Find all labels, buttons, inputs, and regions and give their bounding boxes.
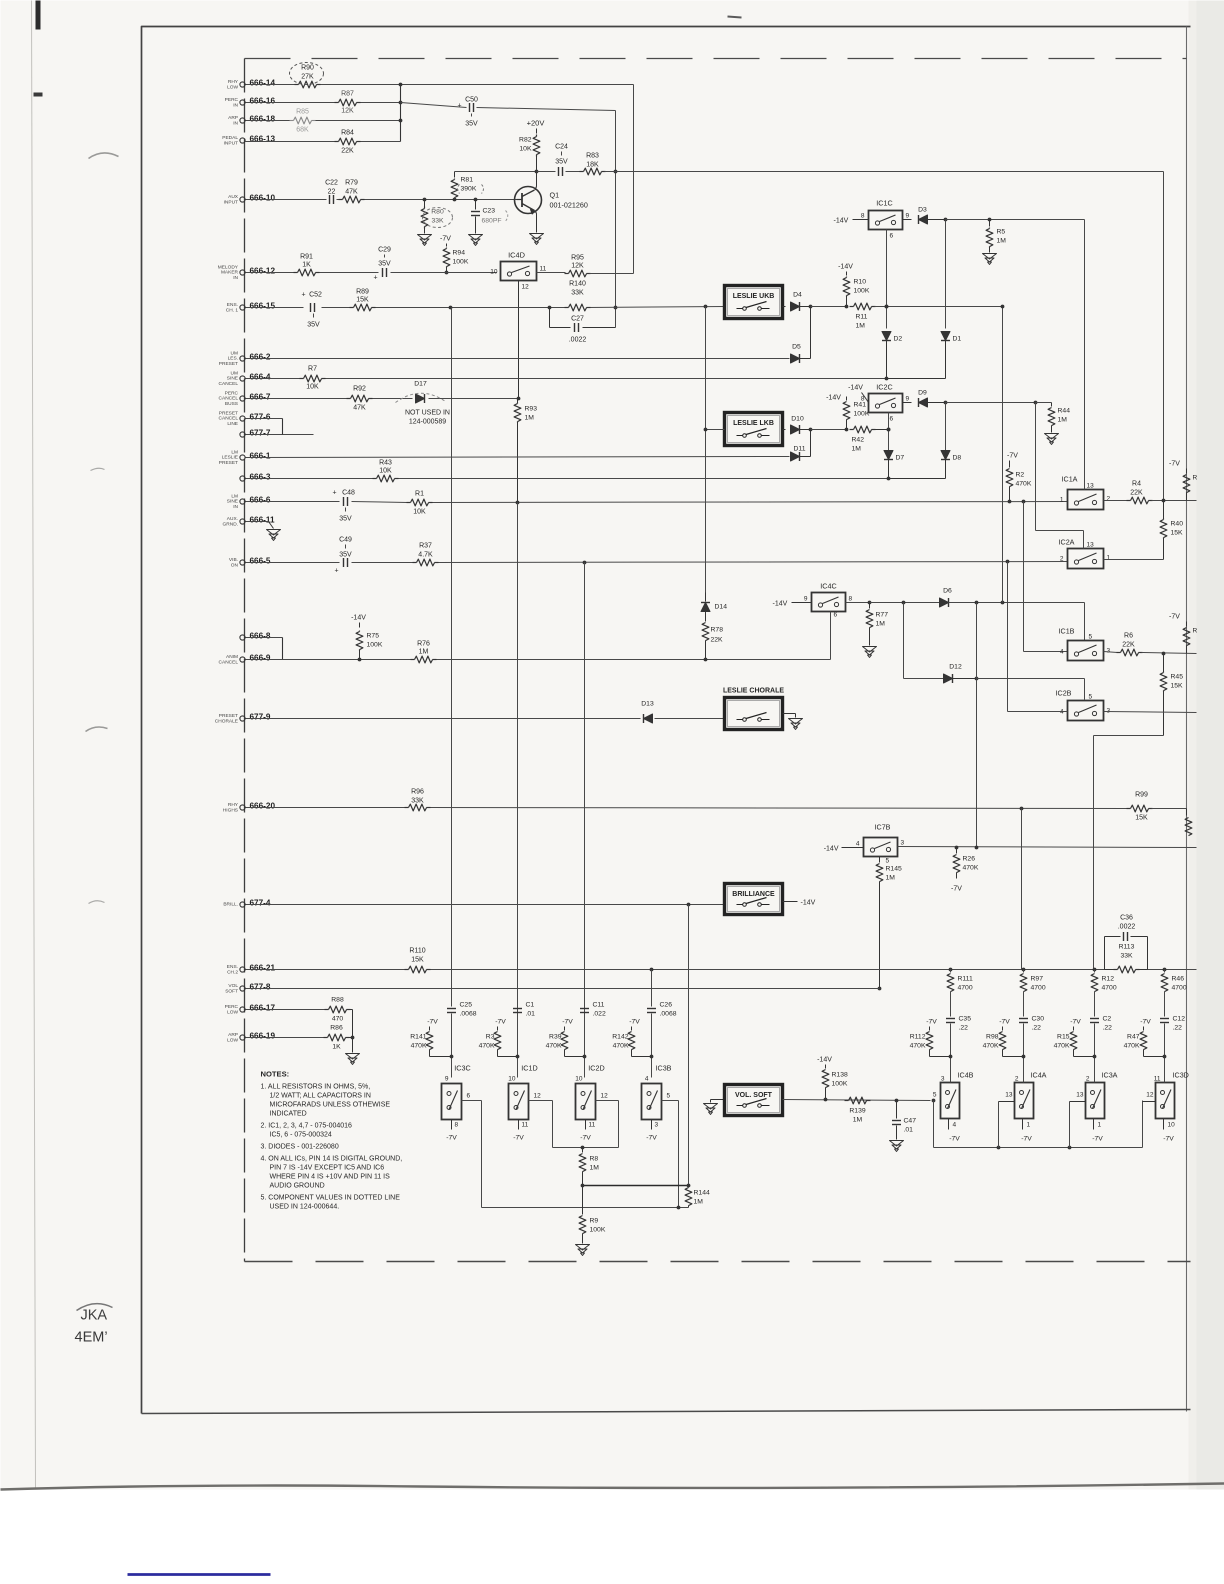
svg-text:VOL. SOFT: VOL. SOFT <box>735 1092 773 1099</box>
ground right of chorale box <box>783 713 796 715</box>
svg-text:C30: C30 <box>1032 1016 1045 1023</box>
ground under C23 <box>469 235 483 241</box>
svg-text:-7V: -7V <box>580 1135 591 1142</box>
svg-text:.0068: .0068 <box>460 1011 477 1018</box>
wire vol soft to IC4B <box>783 1100 931 1101</box>
svg-text:R145: R145 <box>886 866 902 873</box>
svg-text:R82: R82 <box>519 137 532 144</box>
svg-text:3: 3 <box>1107 708 1111 715</box>
svg-text:R4: R4 <box>1132 481 1141 488</box>
svg-text:-7V: -7V <box>646 1135 657 1142</box>
diode D14 vertical <box>705 593 707 602</box>
svg-text:C26: C26 <box>660 1002 673 1009</box>
connector 666-7 <box>240 396 245 401</box>
svg-text:33K: 33K <box>411 798 424 805</box>
svg-text:9: 9 <box>804 596 808 603</box>
resistor R7 <box>304 375 322 382</box>
svg-text:27K: 27K <box>301 74 314 81</box>
svg-text:R76: R76 <box>417 641 430 648</box>
resistor R79 <box>343 196 361 203</box>
svg-text:ENS.: ENS. <box>227 964 238 970</box>
ground under R77 <box>863 647 877 653</box>
svg-text:R43: R43 <box>379 460 392 467</box>
svg-text:C24: C24 <box>555 144 568 151</box>
D4 D5 join vertical <box>800 306 811 308</box>
svg-text:R86: R86 <box>330 1025 343 1032</box>
svg-text:D5: D5 <box>792 344 801 351</box>
svg-text:AUX.: AUX. <box>227 516 238 522</box>
svg-text:R94: R94 <box>453 250 466 257</box>
svg-text:666-19: 666-19 <box>250 1032 276 1041</box>
svg-text:CHORALE: CHORALE <box>215 718 238 724</box>
resistor R93 <box>514 404 521 422</box>
svg-text:100K: 100K <box>854 411 870 418</box>
connector 677-6 <box>240 416 245 421</box>
svg-text:-7V: -7V <box>951 886 962 893</box>
svg-text:IC3D: IC3D <box>1173 1071 1189 1080</box>
svg-text:R5: R5 <box>997 229 1006 236</box>
resistor R138 <box>825 1065 827 1069</box>
svg-text:-14V: -14V <box>834 218 849 225</box>
svg-text:2: 2 <box>1086 1076 1090 1083</box>
svg-text:11: 11 <box>1154 1076 1161 1083</box>
diode D12 <box>944 674 953 683</box>
vertical from 666-5 row to IC2B pin4 <box>1006 560 1010 564</box>
svg-text:2. IC1, 2, 3, 4,7 - 075-00401: 2. IC1, 2, 3, 4,7 - 075-004016 <box>261 1123 353 1130</box>
D1 D2 bottoms tie to 666-4 row <box>887 378 946 380</box>
ground under R9 <box>576 1245 590 1251</box>
svg-text:3: 3 <box>1107 648 1111 655</box>
svg-text:15K: 15K <box>356 297 369 304</box>
svg-text:4: 4 <box>1060 649 1064 656</box>
svg-text:3: 3 <box>655 1122 659 1129</box>
svg-text:LOW: LOW <box>227 1037 238 1043</box>
svg-text:677-8: 677-8 <box>250 983 271 992</box>
capacitor C22 <box>329 195 331 204</box>
svg-text:C23: C23 <box>483 208 496 215</box>
svg-text:IC4C: IC4C <box>820 582 836 591</box>
svg-text:12K: 12K <box>571 263 584 270</box>
resistor R97 <box>1022 968 1026 972</box>
svg-text:R: R <box>1193 475 1198 482</box>
svg-text:15K: 15K <box>411 957 424 964</box>
svg-text:-7V: -7V <box>1092 1136 1103 1143</box>
svg-text:-14V: -14V <box>838 264 853 271</box>
svg-text:R84: R84 <box>341 130 354 137</box>
resistor R6 <box>1121 649 1139 656</box>
junction R96 row down to ens ch2 row <box>1021 809 1023 970</box>
svg-text:1M: 1M <box>590 1165 600 1172</box>
svg-text:.0022: .0022 <box>569 337 587 344</box>
svg-text:11: 11 <box>589 1122 596 1129</box>
svg-text:4700: 4700 <box>1172 985 1187 992</box>
svg-text:5: 5 <box>886 858 890 865</box>
svg-text:4700: 4700 <box>1102 985 1117 992</box>
ground under C47 <box>890 1141 904 1147</box>
svg-text:C25: C25 <box>460 1002 473 1009</box>
vertical from R11 row down to D6 row <box>1002 307 1004 603</box>
svg-text:VOL: VOL <box>228 983 238 989</box>
wire 677-9 row chorale <box>246 718 641 720</box>
vertical D9 junction to D8 <box>945 403 947 474</box>
svg-text:470K: 470K <box>1054 1043 1070 1050</box>
svg-text:C1: C1 <box>526 1002 535 1009</box>
svg-text:R141: R141 <box>410 1034 426 1041</box>
svg-text:R42: R42 <box>852 437 865 444</box>
svg-text:IC1D: IC1D <box>521 1064 537 1073</box>
svg-text:LM: LM <box>231 450 238 456</box>
svg-text:IC7B: IC7B <box>875 823 891 832</box>
svg-text:BRILL.: BRILL. <box>223 902 238 908</box>
svg-text:UM: UM <box>231 351 238 357</box>
svg-text:33K: 33K <box>431 218 444 225</box>
rail under bottom ICs <box>933 1101 935 1148</box>
svg-text:10K: 10K <box>519 146 532 153</box>
IC2C pin6 vertical <box>888 413 890 474</box>
svg-text:35V: 35V <box>465 121 478 128</box>
wire 666-1 row to D11 <box>246 457 790 458</box>
svg-text:IC1B: IC1B <box>1059 627 1075 636</box>
svg-text:11: 11 <box>522 1122 529 1129</box>
svg-text:C47: C47 <box>904 1118 917 1125</box>
svg-text:R26: R26 <box>963 856 976 863</box>
diode D7 <box>884 451 893 460</box>
svg-text:2: 2 <box>1107 496 1111 503</box>
svg-text:13: 13 <box>1005 1092 1013 1099</box>
svg-text:IC2D: IC2D <box>588 1064 604 1073</box>
svg-text:HIGHS: HIGHS <box>223 807 238 813</box>
svg-text:-7V: -7V <box>949 1136 960 1143</box>
svg-text:IC3C: IC3C <box>454 1064 470 1073</box>
svg-text:IC1C: IC1C <box>876 199 892 208</box>
svg-text:PIN 7 IS -14V EXCEPT IC5 AND I: PIN 7 IS -14V EXCEPT IC5 AND IC6 <box>270 1165 385 1172</box>
wire 666-13 row <box>246 141 338 143</box>
connector 677-7 <box>240 432 245 437</box>
connector 666-12 <box>240 270 245 275</box>
wire 666-7 row <box>246 398 348 400</box>
svg-text:-7V: -7V <box>446 1135 457 1142</box>
svg-text:LM: LM <box>231 494 238 500</box>
svg-text:-14V: -14V <box>824 846 839 853</box>
diode D11 <box>791 452 800 461</box>
svg-text:-7V: -7V <box>1169 614 1180 621</box>
svg-text:C49: C49 <box>339 537 352 544</box>
wire 666-14 row <box>246 84 296 86</box>
svg-text:470K: 470K <box>546 1043 562 1050</box>
svg-text:-7V: -7V <box>427 1019 438 1026</box>
capacitor C29 <box>382 268 384 277</box>
wire D9 to R44 <box>946 402 1036 404</box>
junction x705 on 666-9 row <box>704 658 708 662</box>
svg-text:D4: D4 <box>793 292 802 299</box>
outer border frame <box>142 27 1191 1414</box>
svg-text:R139: R139 <box>849 1108 865 1115</box>
resistor R45 <box>1160 673 1167 691</box>
wire 666-12 row <box>246 272 295 274</box>
wire 666-14 corner down x633 <box>633 85 635 274</box>
svg-text:C27: C27 <box>571 316 584 323</box>
scan dirt tick top <box>728 17 742 18</box>
svg-text:C48: C48 <box>342 490 355 497</box>
IC4C pin8 node <box>846 602 870 604</box>
connector 666-3 <box>240 476 245 481</box>
wire 666-19 row <box>246 1037 325 1039</box>
svg-text:1M: 1M <box>1058 417 1068 424</box>
svg-text:JKA: JKA <box>81 1308 108 1324</box>
binder mark 3 <box>86 727 108 731</box>
connector 666-13 <box>240 138 245 143</box>
svg-text:666-21: 666-21 <box>250 964 276 973</box>
svg-text:10: 10 <box>1168 1122 1176 1129</box>
vertical bus x705 ens ch1 <box>704 305 708 309</box>
R45 bottom wire left <box>1094 735 1164 737</box>
vertical from D12 row to IC7B row <box>976 679 978 848</box>
wire 666-15 row <box>246 307 304 309</box>
svg-text:ANIM: ANIM <box>226 654 238 660</box>
wire D9 net into IC2A pin13 jog <box>1035 403 1037 531</box>
svg-text:1K: 1K <box>302 262 311 269</box>
svg-text:22K: 22K <box>1122 642 1135 649</box>
svg-text:.0068: .0068 <box>660 1011 677 1018</box>
resistor R5 <box>988 218 992 222</box>
svg-text:2: 2 <box>1015 1076 1019 1083</box>
wire 677-8 vol soft row <box>246 988 880 990</box>
leg C1 <box>513 1008 522 1010</box>
svg-text:D12: D12 <box>949 664 962 671</box>
svg-text:R80: R80 <box>431 209 444 216</box>
resistor R86 <box>328 1034 346 1041</box>
svg-text:R87: R87 <box>341 91 354 98</box>
wire 666-10 row <box>246 199 327 201</box>
capacitor C35 <box>946 1018 955 1020</box>
collector node row y171 <box>455 171 537 173</box>
svg-text:R83: R83 <box>586 153 599 160</box>
svg-text:22K: 22K <box>711 637 724 644</box>
connector 666-18 <box>240 118 245 123</box>
diode D17 <box>416 394 425 403</box>
connector 666-1 <box>240 455 245 460</box>
svg-text:677-9: 677-9 <box>250 713 271 722</box>
IC4D pin 12 <box>518 281 520 398</box>
IC1B pin3 to R6 <box>1104 652 1118 653</box>
resistor R88 <box>329 1006 347 1013</box>
IC1C pin6 vertical <box>886 230 888 329</box>
svg-text:666-12: 666-12 <box>250 267 276 276</box>
svg-text:3: 3 <box>941 1076 945 1083</box>
svg-text:CANCEL: CANCEL <box>219 396 239 402</box>
svg-text:10K: 10K <box>306 384 319 391</box>
svg-text:12: 12 <box>522 284 530 291</box>
capacitor C49 <box>343 558 345 567</box>
svg-text:-7V: -7V <box>1021 1136 1032 1143</box>
transistor Q1 <box>515 187 542 214</box>
svg-text:-7V: -7V <box>513 1135 524 1142</box>
svg-text:4: 4 <box>953 1122 957 1129</box>
svg-text:CANCEL: CANCEL <box>219 381 239 387</box>
svg-text:.01: .01 <box>904 1127 914 1134</box>
svg-text:GRND.: GRND. <box>223 521 238 527</box>
svg-text:470K: 470K <box>411 1043 427 1050</box>
svg-text:IN: IN <box>233 120 238 126</box>
svg-text:3. DIODES - 001-226080: 3. DIODES - 001-226080 <box>261 1144 339 1151</box>
diode D6 <box>940 598 949 607</box>
resistor R139 <box>849 1097 867 1104</box>
capacitor C27 parallel <box>549 308 551 328</box>
svg-text:D7: D7 <box>896 455 905 462</box>
svg-text:666-20: 666-20 <box>250 802 276 811</box>
svg-text:VIB.: VIB. <box>229 557 238 563</box>
connector 666-19 <box>240 1035 245 1040</box>
svg-text:D14: D14 <box>715 604 728 611</box>
svg-text:R47: R47 <box>1127 1034 1140 1041</box>
wire 677-4 brilliance row <box>246 904 726 906</box>
svg-text:PRESET: PRESET <box>219 411 238 417</box>
svg-text:R41: R41 <box>854 402 867 409</box>
svg-text:390K: 390K <box>461 186 477 193</box>
svg-text:6: 6 <box>467 1093 471 1100</box>
svg-text:R88: R88 <box>331 997 344 1004</box>
svg-text:1M: 1M <box>997 238 1007 245</box>
svg-text:1M: 1M <box>419 649 429 656</box>
svg-text:IN: IN <box>233 504 238 510</box>
svg-text:D13: D13 <box>641 701 654 708</box>
svg-text:35V: 35V <box>378 261 391 268</box>
svg-text:8: 8 <box>861 213 865 220</box>
svg-text:22: 22 <box>328 189 336 196</box>
svg-text:470K: 470K <box>963 865 979 872</box>
svg-text:LESLIE CHORALE: LESLIE CHORALE <box>723 688 784 695</box>
svg-text:LOW: LOW <box>227 84 238 90</box>
svg-text:R46: R46 <box>1172 976 1185 983</box>
svg-text:INPUT: INPUT <box>224 140 238 146</box>
svg-text:LESLIE UKB: LESLIE UKB <box>733 293 775 300</box>
wire D12 into IC2B pin5 <box>977 678 1085 680</box>
svg-text:C29: C29 <box>378 247 391 254</box>
svg-text:-7V: -7V <box>440 236 451 243</box>
vertical to IC2D pin10 <box>584 563 586 1078</box>
connector 677-8 <box>240 986 245 991</box>
svg-text:D3: D3 <box>918 207 927 214</box>
resistor R144 <box>685 1188 692 1206</box>
wire 666-3 row <box>246 478 374 480</box>
svg-text:C36: C36 <box>1120 915 1133 922</box>
connector 677-9 <box>240 716 245 721</box>
BRILLIANCE switch box <box>725 884 783 915</box>
svg-text:R96: R96 <box>411 789 424 796</box>
connector 666-20 <box>240 805 245 810</box>
wire D3 to R5 and IC1A pin13 <box>946 219 1085 221</box>
resistor R76 <box>415 656 433 663</box>
resistor R83 <box>584 168 602 175</box>
resistor R44 <box>1051 403 1053 407</box>
capacitor C52 <box>310 303 312 312</box>
svg-text:C2: C2 <box>1103 1016 1112 1023</box>
svg-text:IC3B: IC3B <box>656 1064 672 1073</box>
wire 666-2 row to D5 <box>246 358 790 360</box>
svg-text:R44: R44 <box>1058 408 1071 415</box>
leg C11 <box>580 1008 589 1010</box>
svg-text:470K: 470K <box>1124 1043 1140 1050</box>
svg-text:R12: R12 <box>1102 976 1115 983</box>
svg-text:R112: R112 <box>910 1034 926 1041</box>
wire 666-6 row <box>246 501 340 503</box>
paper bottom edge <box>1 1484 1224 1490</box>
svg-text:666-4: 666-4 <box>250 373 271 382</box>
svg-text:IC2A: IC2A <box>1059 538 1075 547</box>
svg-text:ARP: ARP <box>228 115 238 121</box>
svg-text:12: 12 <box>601 1093 609 1100</box>
svg-text:R40: R40 <box>1171 521 1184 528</box>
svg-text:IC4B: IC4B <box>958 1071 974 1080</box>
svg-text:C52: C52 <box>309 292 322 299</box>
svg-text:R11: R11 <box>856 314 868 321</box>
svg-text:IC2B: IC2B <box>1056 689 1072 698</box>
svg-text:R85: R85 <box>296 109 309 116</box>
aux ground 666-11 <box>246 521 269 523</box>
svg-text:CANCEL: CANCEL <box>219 416 239 422</box>
connector bus dashed line <box>244 59 246 1262</box>
resistor R85 <box>294 117 312 124</box>
svg-text:35V: 35V <box>307 322 320 329</box>
svg-text:666-6: 666-6 <box>250 496 271 505</box>
binder mark 1 <box>89 153 119 159</box>
capacitor C47 <box>895 1099 899 1103</box>
svg-text:-14V: -14V <box>801 900 816 907</box>
resistor R78 <box>705 612 707 622</box>
resistor R94 <box>446 244 448 247</box>
svg-text:5: 5 <box>667 1093 671 1100</box>
connector 666-2 <box>240 356 245 361</box>
svg-text:RHY: RHY <box>228 802 239 808</box>
svg-text:666-15: 666-15 <box>250 302 276 311</box>
svg-text:D11: D11 <box>794 446 806 453</box>
svg-text:R138: R138 <box>832 1072 848 1079</box>
svg-text:666-17: 666-17 <box>250 1004 276 1013</box>
svg-text:RHY: RHY <box>228 79 239 85</box>
rail IC1D IC2D pin12 with R8 <box>553 1147 619 1149</box>
svg-text:IC2C: IC2C <box>876 383 892 392</box>
vertical BRILL to R144 <box>688 905 690 1186</box>
svg-text:22K: 22K <box>1130 490 1143 497</box>
resistor R82 <box>533 137 540 155</box>
svg-text:CH. 1: CH. 1 <box>226 307 239 313</box>
diode D10 <box>783 429 786 431</box>
svg-text:-7V: -7V <box>495 1019 506 1026</box>
resistor R80 <box>423 198 427 202</box>
svg-text:-14V: -14V <box>848 385 863 392</box>
svg-text:R37: R37 <box>419 543 432 550</box>
connector 666-5 <box>240 560 245 565</box>
svg-text:1: 1 <box>1098 1122 1102 1129</box>
svg-text:-14V: -14V <box>817 1057 832 1064</box>
svg-text:8: 8 <box>455 1122 459 1129</box>
svg-text:R45: R45 <box>1171 674 1184 681</box>
svg-text:SINE: SINE <box>227 376 238 382</box>
svg-text:001-021260: 001-021260 <box>550 201 588 210</box>
svg-text:MELODY: MELODY <box>218 265 239 271</box>
VOL SOFT switch box <box>725 1085 783 1116</box>
svg-text:.22: .22 <box>1103 1025 1113 1032</box>
wire down into IC1B pin5 <box>1084 603 1086 641</box>
anim cancel bracket 666-8 666-9 <box>246 637 283 639</box>
svg-text:4700: 4700 <box>958 985 973 992</box>
svg-text:IC4A: IC4A <box>1031 1071 1047 1080</box>
wire pin8 to D6 <box>870 602 940 604</box>
svg-text:NOT USED IN: NOT USED IN <box>405 410 450 417</box>
connector 666-11 <box>240 519 245 524</box>
svg-text:-7V: -7V <box>1140 1019 1151 1026</box>
diode D13 <box>644 714 653 723</box>
